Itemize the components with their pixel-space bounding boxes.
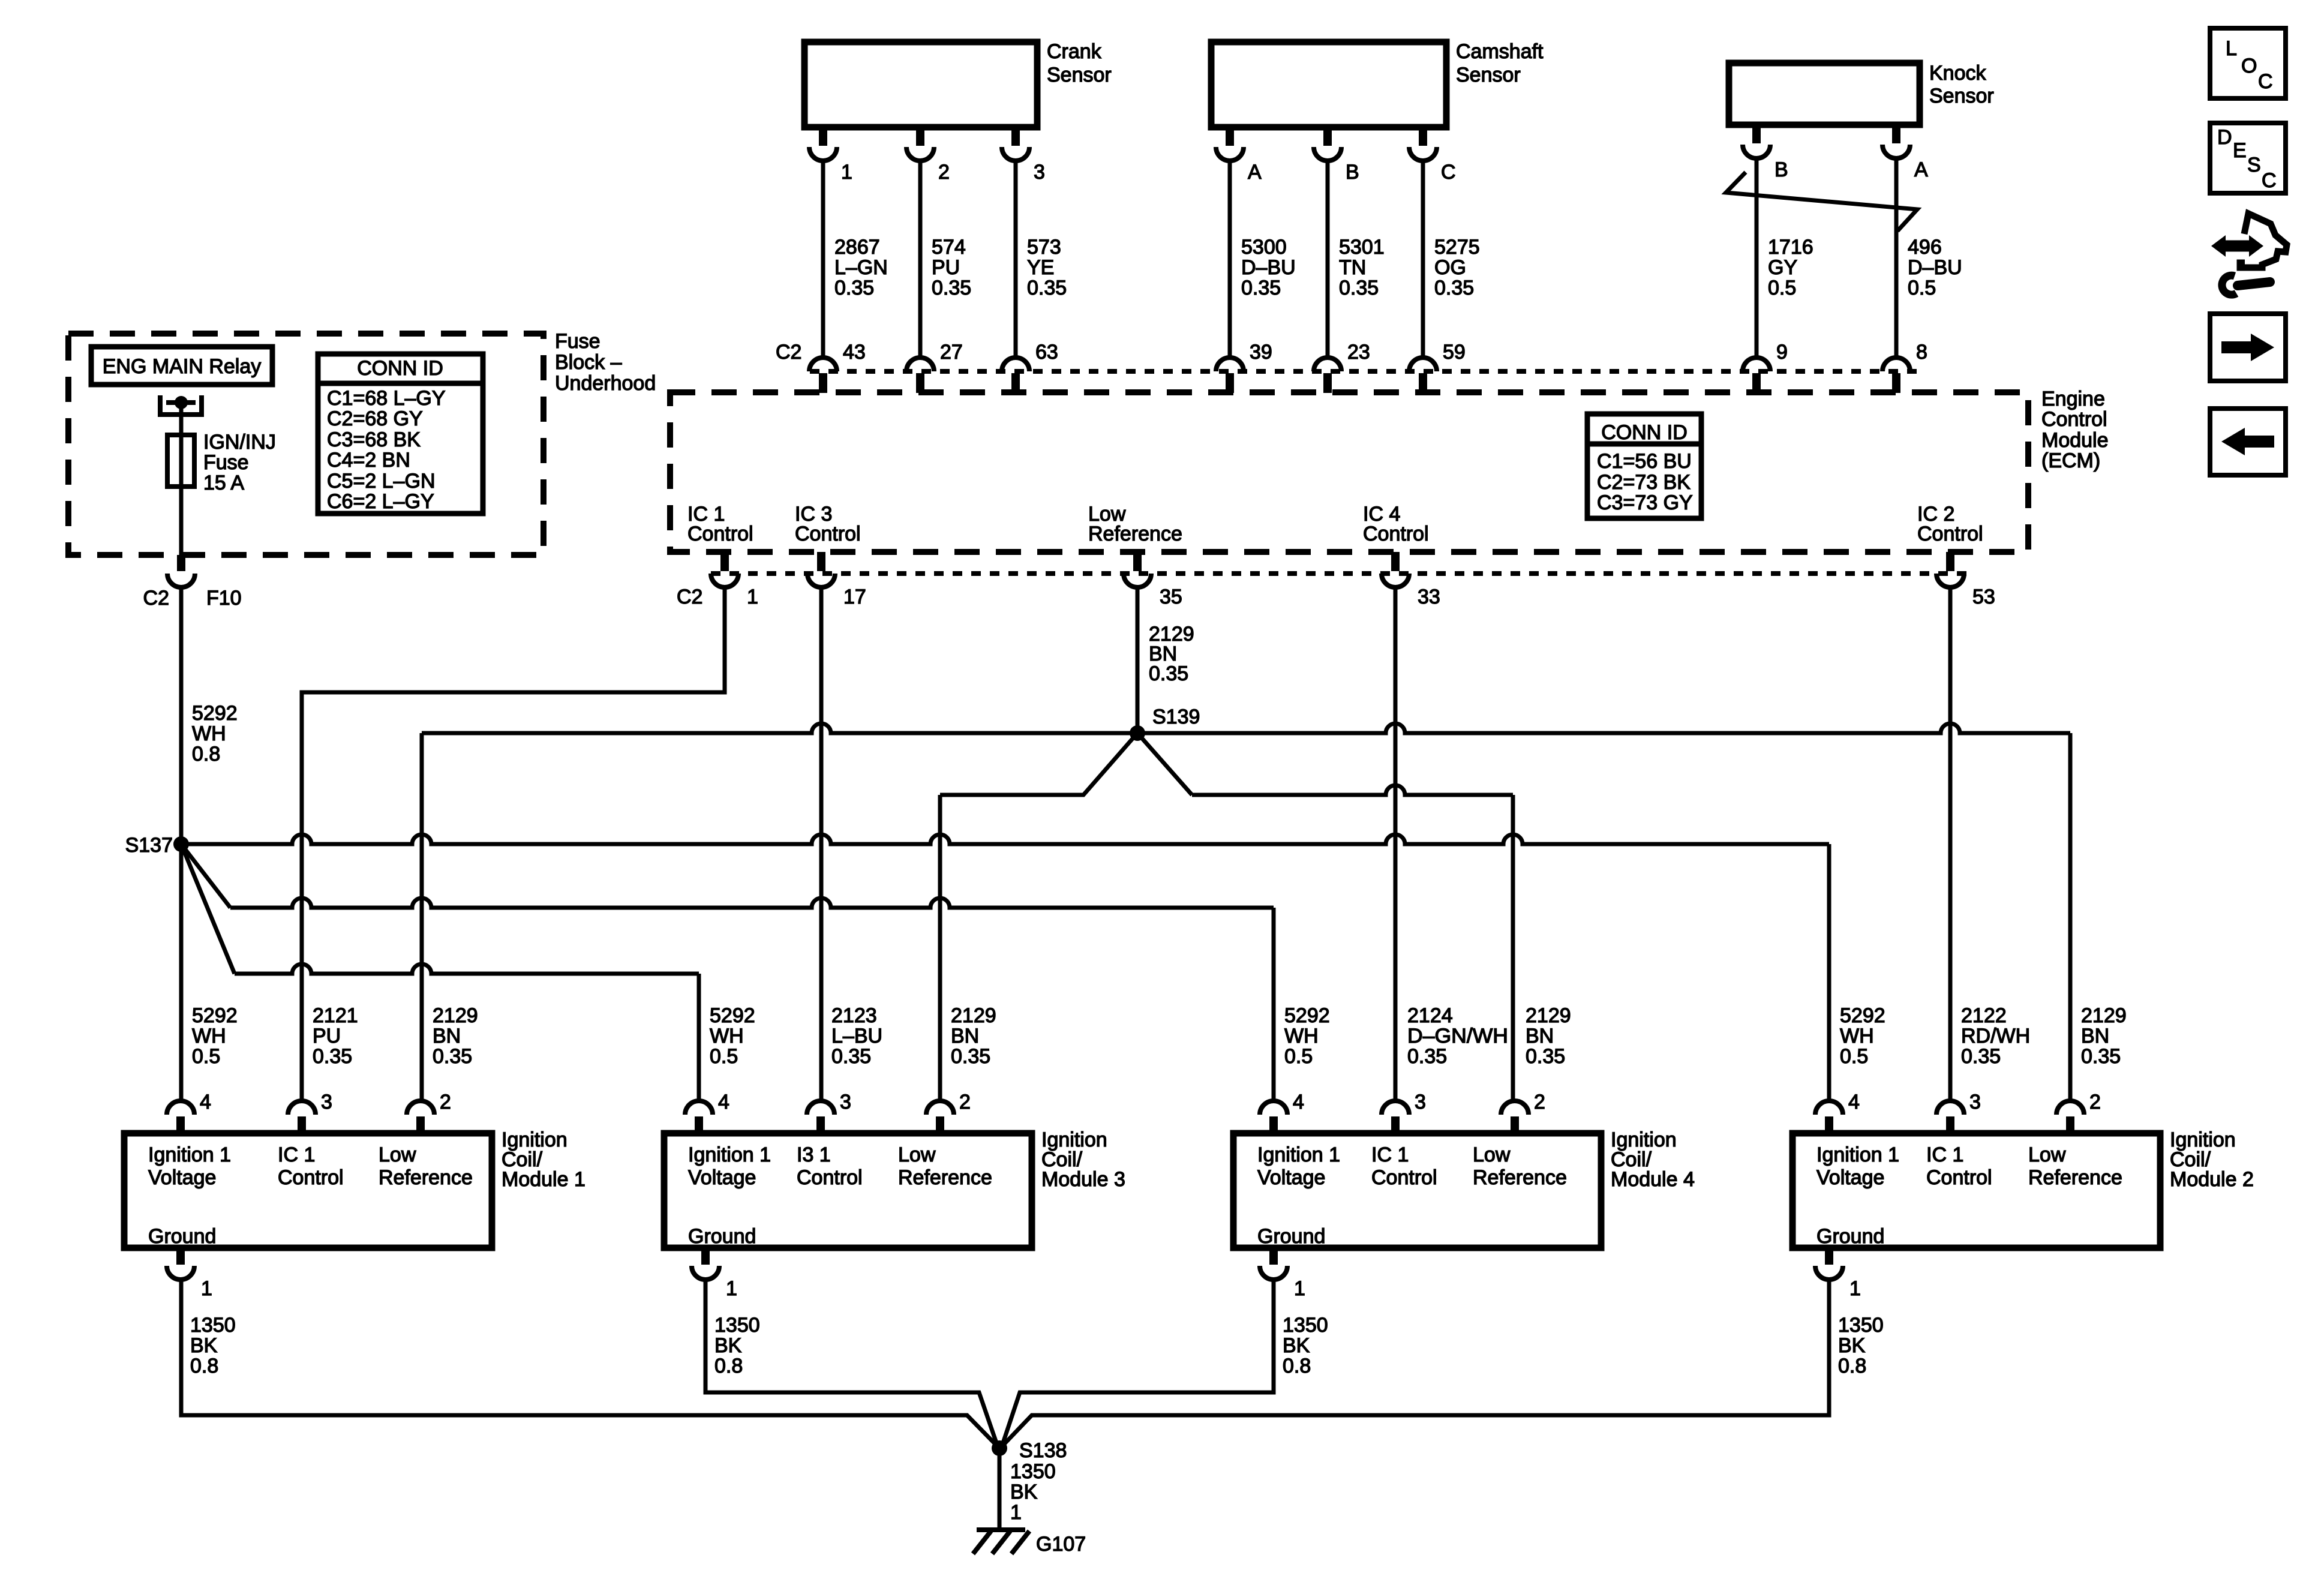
ECM pin function labels xyxy=(687,503,1983,545)
svg-text:43: 43 xyxy=(843,341,866,364)
svg-text:5300: 5300 xyxy=(1241,236,1287,259)
svg-text:TN: TN xyxy=(1339,256,1366,279)
svg-text:BN: BN xyxy=(2081,1025,2109,1047)
svg-text:5292: 5292 xyxy=(710,1004,755,1027)
svg-text:Sensor: Sensor xyxy=(1929,85,1994,107)
ECM bottom connector dotted line xyxy=(711,571,1968,576)
svg-text:YE: YE xyxy=(1027,256,1054,279)
svg-text:0.5: 0.5 xyxy=(192,1045,220,1068)
fuse label xyxy=(203,431,276,494)
wire label 5300 D&#8211;BU 0.35 xyxy=(1241,236,1296,299)
svg-text:0.5: 0.5 xyxy=(1840,1045,1868,1068)
svg-text:0.35: 0.35 xyxy=(951,1045,990,1068)
svg-text:Control: Control xyxy=(1926,1166,1992,1189)
ECM top connector dotted line xyxy=(810,369,1923,374)
svg-text:0.8: 0.8 xyxy=(1838,1355,1866,1377)
ECM label xyxy=(2041,388,2109,472)
wire label 573 YE 0.35 xyxy=(1027,236,1067,299)
svg-text:35: 35 xyxy=(1160,586,1182,608)
svg-text:5292: 5292 xyxy=(1284,1004,1330,1027)
connector label C2 (ECM bottom row) xyxy=(677,586,702,608)
coil 1 label xyxy=(502,1128,585,1191)
svg-text:C6=2 L–GY: C6=2 L–GY xyxy=(327,490,434,513)
coil 3 pin 2 connector xyxy=(926,1091,971,1133)
svg-text:IC 1: IC 1 xyxy=(1371,1143,1409,1166)
svg-text:Underhood: Underhood xyxy=(555,372,656,395)
svg-text:C3=68 BK: C3=68 BK xyxy=(327,428,421,451)
splice S139 xyxy=(1130,706,1200,741)
svg-text:17: 17 xyxy=(843,586,866,608)
ignition coil module 2 box xyxy=(1792,1133,2160,1248)
ignition coil module 4 box xyxy=(1233,1133,1601,1248)
svg-text:0.35: 0.35 xyxy=(2081,1045,2121,1068)
svg-text:0.5: 0.5 xyxy=(710,1045,738,1068)
svg-text:Ignition 1: Ignition 1 xyxy=(1257,1143,1340,1166)
wire 2122 RD/WH pin53 to coil2 xyxy=(1948,587,1953,1101)
wire 2124 D-GN/WH pin33 to coil4 xyxy=(1394,587,1398,1101)
svg-text:2: 2 xyxy=(1534,1091,1545,1113)
svg-text:Module: Module xyxy=(2041,429,2109,452)
svg-text:0.35: 0.35 xyxy=(831,1045,871,1068)
svg-text:F10: F10 xyxy=(206,587,242,610)
svg-text:0.5: 0.5 xyxy=(1768,277,1796,299)
svg-text:L–GN: L–GN xyxy=(834,256,888,279)
ECM pin 43 connector xyxy=(809,341,866,393)
coil 4 pin 2 connector xyxy=(1501,1091,1545,1133)
coil 4 label xyxy=(1611,1128,1695,1191)
svg-text:C2=73 BK: C2=73 BK xyxy=(1597,471,1691,494)
coil 3 pin 4 connector xyxy=(685,1091,729,1133)
svg-text:Voltage: Voltage xyxy=(1257,1166,1325,1189)
svg-text:2122: 2122 xyxy=(1961,1004,2007,1027)
wire 496 D&#8211;BU xyxy=(1894,158,1899,358)
ECM pin 39 connector xyxy=(1216,341,1272,393)
svg-text:2129: 2129 xyxy=(433,1004,478,1027)
coil 2 label xyxy=(2170,1128,2254,1191)
relay K contact symbol xyxy=(160,395,202,415)
service icon xyxy=(2211,214,2287,295)
svg-text:Ground: Ground xyxy=(1257,1225,1325,1248)
ECM pin 9 connector xyxy=(1743,341,1788,393)
wire S137 to coil1 pin4 xyxy=(179,844,184,1101)
svg-text:0.35: 0.35 xyxy=(1407,1045,1447,1068)
sensor pin 3 stub+connector xyxy=(1002,127,1045,184)
wire 5300 D&#8211;BU xyxy=(1228,161,1232,358)
svg-text:4: 4 xyxy=(718,1091,729,1113)
svg-text:Low: Low xyxy=(1473,1143,1511,1166)
svg-text:0.8: 0.8 xyxy=(190,1355,218,1377)
wire S137 branch to coil4 pin4 xyxy=(181,844,1274,1101)
svg-text:Block –: Block – xyxy=(555,351,622,374)
svg-text:C3=73 GY: C3=73 GY xyxy=(1597,491,1693,514)
svg-text:Sensor: Sensor xyxy=(1047,64,1112,86)
fuse block - underhood dashed box xyxy=(68,334,544,555)
coil 1 pin 4 connector xyxy=(167,1091,211,1133)
svg-text:3: 3 xyxy=(321,1091,332,1113)
wire 1716 GY xyxy=(1755,158,1759,358)
coil 1 pin 3 connector xyxy=(288,1091,332,1133)
svg-text:5275: 5275 xyxy=(1434,236,1480,259)
svg-text:8: 8 xyxy=(1916,341,1927,364)
svg-text:4: 4 xyxy=(1293,1091,1304,1113)
svg-text:Low: Low xyxy=(379,1143,416,1166)
svg-text:0.35: 0.35 xyxy=(1149,662,1188,685)
coil 4 pin 4 connector xyxy=(1260,1091,1304,1133)
svg-text:Control: Control xyxy=(278,1166,344,1189)
svg-text:0.35: 0.35 xyxy=(1027,277,1067,299)
svg-text:5301: 5301 xyxy=(1339,236,1385,259)
connector label C2 (ECM top row) xyxy=(776,341,801,364)
knock sensor box xyxy=(1729,62,1994,125)
svg-text:C2: C2 xyxy=(677,586,702,608)
wire coil4 ground 1350 BK xyxy=(1002,1280,1274,1445)
wire 2867 L&#8211;GN xyxy=(821,161,825,358)
wire label 2129 xyxy=(2081,1004,2127,1068)
svg-text:53: 53 xyxy=(1972,586,1995,608)
wire label 1716 GY 0.5 xyxy=(1768,236,1813,299)
conn id table ECM xyxy=(1587,414,1701,518)
svg-text:Reference: Reference xyxy=(2028,1166,2122,1189)
svg-text:Low: Low xyxy=(898,1143,936,1166)
svg-text:BK: BK xyxy=(714,1334,742,1357)
sensor pin A stub+connector xyxy=(1882,125,1928,181)
coil 3 label xyxy=(1041,1128,1125,1191)
svg-text:0.8: 0.8 xyxy=(192,743,220,766)
svg-text:C1=68 L–GY: C1=68 L–GY xyxy=(327,387,446,410)
svg-text:Fuse: Fuse xyxy=(203,451,249,474)
wire label 2124 xyxy=(1407,1004,1508,1068)
splice S137 xyxy=(125,834,189,857)
ECM pin 23 connector xyxy=(1314,341,1370,393)
svg-text:0.8: 0.8 xyxy=(714,1355,743,1377)
svg-text:Crank: Crank xyxy=(1047,40,1102,63)
svg-text:0.35: 0.35 xyxy=(1961,1045,2001,1068)
svg-text:5292: 5292 xyxy=(192,1004,238,1027)
svg-text:RD/WH: RD/WH xyxy=(1961,1025,2030,1047)
svg-text:S137: S137 xyxy=(125,834,173,857)
svg-text:Control: Control xyxy=(1363,523,1429,545)
wire label 5292 xyxy=(1284,1004,1330,1068)
svg-text:C5=2 L–GN: C5=2 L–GN xyxy=(327,470,436,493)
svg-text:C: C xyxy=(1441,161,1456,184)
svg-text:1: 1 xyxy=(747,586,758,608)
ECM bottom pin 17 connector xyxy=(807,552,866,608)
svg-text:2121: 2121 xyxy=(313,1004,358,1027)
svg-text:2: 2 xyxy=(959,1091,971,1113)
coil 3 ground pin connector xyxy=(692,1248,737,1300)
svg-text:Reference: Reference xyxy=(379,1166,473,1189)
svg-text:Sensor: Sensor xyxy=(1456,64,1521,86)
wire S138 to G107 xyxy=(998,1448,1002,1530)
svg-text:15 A: 15 A xyxy=(203,472,244,494)
ECM pin 8 connector xyxy=(1882,341,1927,393)
wire 5275 OG xyxy=(1421,161,1425,358)
svg-text:Control: Control xyxy=(795,523,861,545)
wire label 5292 xyxy=(1840,1004,1885,1068)
svg-text:IGN/INJ: IGN/INJ xyxy=(203,431,276,454)
wire coil2 ground 1350 BK xyxy=(1004,1280,1829,1445)
svg-text:D: D xyxy=(2217,126,2232,149)
svg-text:0.35: 0.35 xyxy=(433,1045,472,1068)
coil 3 inner labels xyxy=(688,1143,992,1248)
svg-text:27: 27 xyxy=(940,341,963,364)
svg-text:B: B xyxy=(1346,161,1359,184)
ignition coil module 3 box xyxy=(664,1133,1032,1248)
svg-text:WH: WH xyxy=(192,1025,226,1047)
wire label 5292 xyxy=(710,1004,755,1068)
svg-text:Engine: Engine xyxy=(2041,388,2105,410)
wire low ref drop to coil2 pin2 xyxy=(2068,733,2073,1101)
ground G107 xyxy=(973,1530,1086,1556)
ECM pin 27 connector xyxy=(906,341,963,393)
svg-text:1: 1 xyxy=(726,1277,737,1300)
coil 1 pin 2 connector xyxy=(407,1091,451,1133)
wire coil1 ground 1350 BK xyxy=(181,1280,996,1445)
camshaft sensor box xyxy=(1211,40,1544,127)
svg-text:2867: 2867 xyxy=(834,236,880,259)
svg-text:3: 3 xyxy=(840,1091,851,1113)
sensor pin B stub+connector xyxy=(1743,125,1788,181)
svg-text:BK: BK xyxy=(1010,1481,1038,1503)
svg-text:Module 2: Module 2 xyxy=(2170,1168,2254,1191)
svg-text:Module 4: Module 4 xyxy=(1611,1168,1695,1191)
svg-text:Control: Control xyxy=(1917,523,1983,545)
svg-text:Voltage: Voltage xyxy=(688,1166,756,1189)
svg-text:Camshaft: Camshaft xyxy=(1456,40,1544,63)
svg-text:Voltage: Voltage xyxy=(1816,1166,1884,1189)
svg-text:0.35: 0.35 xyxy=(313,1045,352,1068)
svg-text:Control: Control xyxy=(1371,1166,1437,1189)
svg-text:Ground: Ground xyxy=(688,1225,756,1248)
svg-text:1: 1 xyxy=(1294,1277,1305,1300)
svg-text:1350: 1350 xyxy=(1010,1460,1056,1483)
svg-text:A: A xyxy=(1914,158,1928,181)
crank sensor box xyxy=(804,40,1112,127)
svg-text:0.35: 0.35 xyxy=(834,277,874,299)
coil 2 ground pin connector xyxy=(1815,1248,1861,1300)
wire label 496 D&#8211;BU 0.5 xyxy=(1908,236,1962,299)
svg-text:C1=56 BU: C1=56 BU xyxy=(1597,450,1692,473)
wire 2121 PU pin1 to coil1 IC control xyxy=(302,587,725,1101)
svg-text:L: L xyxy=(2226,37,2237,60)
coil 1 inner labels xyxy=(148,1143,473,1248)
ECM bottom pin 33 connector xyxy=(1382,552,1440,608)
svg-text:Ignition 1: Ignition 1 xyxy=(148,1143,231,1166)
wire label 5301 TN 0.35 xyxy=(1339,236,1385,299)
wire S139 right branch to coil4 pin2 xyxy=(1137,733,1513,1101)
wire low reference bus xyxy=(422,724,2070,733)
sensor pin C stub+connector xyxy=(1409,127,1456,184)
wire label 2129 xyxy=(951,1004,996,1068)
svg-text:Ignition 1: Ignition 1 xyxy=(688,1143,771,1166)
svg-text:5292: 5292 xyxy=(1840,1004,1885,1027)
svg-text:1: 1 xyxy=(841,161,852,184)
svg-text:B: B xyxy=(1774,158,1788,181)
svg-text:S: S xyxy=(2247,154,2261,176)
svg-text:BK: BK xyxy=(1838,1334,1866,1357)
svg-text:4: 4 xyxy=(200,1091,211,1113)
svg-text:C2: C2 xyxy=(776,341,801,364)
wire label 2129 BN 0.35 (S139) xyxy=(1149,623,1194,685)
svg-text:0.35: 0.35 xyxy=(1339,277,1379,299)
svg-text:L–BU: L–BU xyxy=(831,1025,882,1047)
coil 4 inner labels xyxy=(1257,1143,1567,1248)
wire label 5275 OG 0.35 xyxy=(1434,236,1480,299)
svg-text:PU: PU xyxy=(932,256,960,279)
twisted pair symbol knock wires xyxy=(1726,172,1917,231)
wire label 2129 xyxy=(1526,1004,1571,1068)
svg-text:BN: BN xyxy=(1526,1025,1554,1047)
svg-text:9: 9 xyxy=(1776,341,1788,364)
svg-text:S138: S138 xyxy=(1019,1439,1067,1462)
wire label 2129 xyxy=(433,1004,478,1068)
svg-text:2123: 2123 xyxy=(831,1004,877,1027)
svg-text:C: C xyxy=(2258,70,2273,93)
svg-text:Control: Control xyxy=(687,523,753,545)
svg-text:1: 1 xyxy=(1010,1501,1022,1524)
svg-text:O: O xyxy=(2241,55,2257,77)
svg-text:C4=2 BN: C4=2 BN xyxy=(327,449,410,472)
sensor pin 1 stub+connector xyxy=(809,127,852,184)
svg-text:0.8: 0.8 xyxy=(1283,1355,1311,1377)
svg-text:496: 496 xyxy=(1908,236,1942,259)
svg-text:C: C xyxy=(2262,169,2277,192)
svg-text:ENG MAIN Relay: ENG MAIN Relay xyxy=(103,355,262,378)
wire low ref drop to coil1 pin2 xyxy=(420,733,424,1101)
svg-text:Fuse: Fuse xyxy=(555,330,600,353)
wire label 2867 L&#8211;GN 0.35 xyxy=(834,236,888,299)
DESC icon box xyxy=(2210,123,2286,193)
svg-text:OG: OG xyxy=(1434,256,1466,279)
svg-text:2124: 2124 xyxy=(1407,1004,1453,1027)
svg-text:D–GN/WH: D–GN/WH xyxy=(1407,1025,1508,1047)
wire label 2122 xyxy=(1961,1004,2030,1068)
wire S139 left branch to coil3 pin2 xyxy=(940,733,1137,1101)
connector C2 F10 xyxy=(143,574,242,610)
wire label 2121 xyxy=(313,1004,358,1068)
svg-text:CONN ID: CONN ID xyxy=(1601,421,1688,444)
sensor pin A stub+connector xyxy=(1216,127,1262,184)
svg-text:D–BU: D–BU xyxy=(1908,256,1962,279)
LOC icon box xyxy=(2210,28,2286,98)
svg-text:BK: BK xyxy=(1283,1334,1310,1357)
wire label 1350 BK 0.8 xyxy=(1838,1314,1884,1377)
ECM bottom pin 1 connector xyxy=(711,552,758,608)
svg-text:Voltage: Voltage xyxy=(148,1166,216,1189)
coil 3 pin 3 connector xyxy=(807,1091,851,1133)
svg-text:2129: 2129 xyxy=(2081,1004,2127,1027)
svg-text:Control: Control xyxy=(2041,408,2107,431)
svg-text:33: 33 xyxy=(1418,586,1440,608)
svg-text:0.5: 0.5 xyxy=(1284,1045,1313,1068)
coil 2 pin 4 connector xyxy=(1815,1091,1860,1133)
wire 2123 L-BU pin17 to coil3 xyxy=(819,587,824,1101)
coil 2 pin 3 connector xyxy=(1936,1091,1981,1133)
wire label 5292 WH 0.8 xyxy=(192,702,238,766)
svg-text:1350: 1350 xyxy=(1283,1314,1328,1337)
svg-text:GY: GY xyxy=(1768,256,1797,279)
coil 2 pin 2 connector xyxy=(2056,1091,2101,1133)
ECM pin 59 connector xyxy=(1409,341,1466,393)
svg-text:Knock: Knock xyxy=(1929,62,1986,85)
svg-text:BN: BN xyxy=(433,1025,461,1047)
sensor pin B stub+connector xyxy=(1314,127,1359,184)
next arrow icon box xyxy=(2210,314,2286,381)
wire label 1350 BK 0.8 xyxy=(190,1314,236,1377)
svg-text:3: 3 xyxy=(1034,161,1045,184)
wire label 1350 BK 0.8 xyxy=(1283,1314,1328,1377)
coil 1 ground pin connector xyxy=(167,1248,212,1300)
svg-text:2129: 2129 xyxy=(1526,1004,1571,1027)
svg-text:2: 2 xyxy=(2089,1091,2101,1113)
svg-text:0.35: 0.35 xyxy=(1526,1045,1565,1068)
svg-text:1: 1 xyxy=(201,1277,212,1300)
ECM pin 63 connector xyxy=(1002,341,1058,393)
svg-text:Ground: Ground xyxy=(1816,1225,1884,1248)
svg-text:PU: PU xyxy=(313,1025,341,1047)
svg-text:C2=68 GY: C2=68 GY xyxy=(327,407,423,430)
ignition coil module 1 box xyxy=(124,1133,492,1248)
svg-text:WH: WH xyxy=(1840,1025,1874,1047)
svg-text:59: 59 xyxy=(1443,341,1466,364)
svg-text:Ground: Ground xyxy=(148,1225,216,1248)
splice S138 xyxy=(992,1439,1067,1462)
svg-text:Reference: Reference xyxy=(1088,523,1182,545)
svg-text:A: A xyxy=(1248,161,1262,184)
wire label 1350 BK 0.8 xyxy=(714,1314,760,1377)
svg-text:574: 574 xyxy=(932,236,966,259)
svg-text:Module 1: Module 1 xyxy=(502,1168,585,1191)
svg-text:4: 4 xyxy=(1848,1091,1860,1113)
wire label 5292 xyxy=(192,1004,238,1068)
svg-text:IC 1: IC 1 xyxy=(278,1143,315,1166)
svg-text:CONN ID: CONN ID xyxy=(357,357,443,380)
svg-text:BK: BK xyxy=(190,1334,218,1357)
svg-text:(ECM): (ECM) xyxy=(2041,449,2100,472)
svg-text:S139: S139 xyxy=(1152,706,1200,728)
svg-text:2129: 2129 xyxy=(951,1004,996,1027)
coil 4 ground pin connector xyxy=(1260,1248,1305,1300)
svg-text:IC 1: IC 1 xyxy=(1926,1143,1963,1166)
wire 5301 TN xyxy=(1326,161,1330,358)
wire S137 branch to coil3 pin4 xyxy=(181,844,699,1101)
engine control module dashed box xyxy=(670,392,2028,552)
svg-text:WH: WH xyxy=(1284,1025,1319,1047)
wire 573 YE xyxy=(1014,161,1018,358)
svg-text:I3 1: I3 1 xyxy=(797,1143,831,1166)
svg-text:E: E xyxy=(2233,139,2247,162)
svg-text:Ignition 1: Ignition 1 xyxy=(1816,1143,1899,1166)
svg-text:1716: 1716 xyxy=(1768,236,1813,259)
svg-text:D–BU: D–BU xyxy=(1241,256,1296,279)
ENG MAIN relay box xyxy=(91,347,272,385)
coil 2 inner labels xyxy=(1816,1143,2122,1248)
svg-text:1: 1 xyxy=(1849,1277,1861,1300)
wire label 1350 BK 1 (S138) xyxy=(1010,1460,1056,1524)
wire 5292 WH 0.8 from fuse xyxy=(179,587,184,844)
svg-text:3: 3 xyxy=(1969,1091,1981,1113)
svg-text:0.35: 0.35 xyxy=(932,277,971,299)
sensor pin 2 stub+connector xyxy=(906,127,950,184)
svg-text:Control: Control xyxy=(797,1166,863,1189)
fuse block label xyxy=(555,330,656,395)
wire label 574 PU 0.35 xyxy=(932,236,971,299)
coil 4 pin 3 connector xyxy=(1382,1091,1426,1133)
svg-text:1350: 1350 xyxy=(190,1314,236,1337)
svg-text:23: 23 xyxy=(1347,341,1370,364)
svg-text:G107: G107 xyxy=(1036,1533,1086,1556)
svg-text:C2: C2 xyxy=(143,587,169,610)
